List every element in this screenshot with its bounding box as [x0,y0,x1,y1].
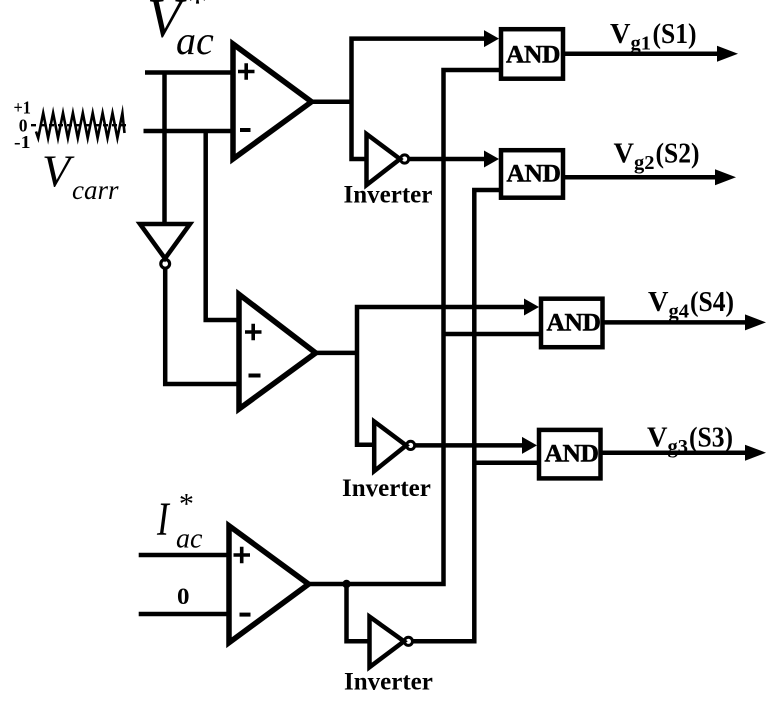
svg-text:V: V [614,137,635,169]
svg-text:AND: AND [507,159,561,188]
comparator U2 minus sign [249,374,261,378]
comparator U3 minus sign [240,613,251,617]
junction dot comparator U3 output [342,580,350,588]
carrier waveform axis labels +1 0 -1 [14,98,31,153]
label Vg1 (S1) [610,18,697,55]
wire comparator U3 output right then up vertical bus 1 to AND1 lower input [306,70,499,584]
comparator U1 minus sign [240,128,251,132]
svg-text:(S1): (S1) [653,18,697,50]
arrowhead into AND1 [484,30,499,47]
wire comparator U2 output up to AND3 and down to inverter U6 [357,307,529,445]
AND gate AND1 [501,29,563,78]
wire zero reference to comparator U3 minus [139,612,229,617]
inverter U5 [367,134,401,185]
svg-text:g4: g4 [669,301,690,323]
comparator U2 plus sign [245,324,262,341]
node Iac* reference current label [156,488,203,555]
svg-text:ac: ac [176,524,203,555]
node Vcarr carrier label [42,146,119,206]
wire inverter U4 output to comparator U2 minus input [165,269,239,384]
AND gate AND3 [541,299,603,348]
svg-text:g1: g1 [631,33,652,55]
wire Vac* to comparator U1 plus input [145,70,233,75]
comparator U1 plus sign [238,63,255,80]
svg-text:*: * [178,488,193,521]
inverter U4 bubble [161,259,170,268]
wire carrier to comparator U1 minus input [144,129,234,134]
wire inverter U5 output to AND2 [409,157,489,162]
svg-text:(S2): (S2) [656,137,700,169]
wire bus 2 tee to AND4 lower input [474,460,537,465]
svg-text:(S3): (S3) [689,421,733,453]
svg-text:V: V [647,421,668,453]
svg-text:*: * [185,0,206,26]
svg-text:0: 0 [177,584,190,610]
comparator U3 plus sign [234,547,251,564]
wire AND3 output arrow Vg4 [605,320,746,325]
svg-text:+1: +1 [14,98,31,118]
wire comparator U1 output up to AND1 and down to inverter U5 [352,39,490,159]
svg-text:carr: carr [72,175,119,205]
AND gate AND2 [501,150,563,198]
wire inverter U7 output up vertical bus 2 to AND2 lower input [413,190,500,641]
svg-text:AND: AND [506,40,560,69]
inverter U6 bubble [407,441,415,449]
svg-text:Inverter: Inverter [344,182,433,209]
inverter U7 bubble [404,637,412,645]
wire AND1 output arrow Vg1 [565,52,717,57]
node Vac* reference input label [147,0,214,63]
svg-text:g3: g3 [668,436,689,458]
svg-text:-1: -1 [14,132,31,152]
wire Vac* branch down to inverter U4 [162,73,167,225]
svg-text:V: V [648,286,669,318]
wire comparator U1 output stub [309,100,352,105]
svg-text:Inverter: Inverter [342,475,431,502]
svg-text:V: V [42,146,75,197]
wire comparator U2 output stub [313,351,357,356]
carrier waveform zigzag [36,113,125,138]
label Vg3 (S3) [647,421,733,458]
arrowhead into AND3 [524,299,539,316]
arrowhead into AND4 [522,437,537,454]
comparator U3 [229,526,309,643]
inverter U6 [374,422,406,472]
label Vg2 (S2) [614,137,700,174]
label Vg4 (S4) [648,286,734,323]
wire AND2 output arrow Vg2 [565,175,715,180]
wire inverter U6 output to AND4 [415,443,527,448]
svg-text:Inverter: Inverter [344,669,433,696]
arrowhead into AND2 [484,151,499,168]
svg-text:I: I [156,493,170,546]
comparator U2 [239,294,316,409]
inverter U4 (down-pointing) [140,224,190,259]
inverter U5 bubble [401,155,409,163]
svg-text:g2: g2 [634,152,655,174]
wire carrier branch down and into comparator U2 plus input [206,131,239,320]
wire AND4 output arrow Vg3 [603,450,746,455]
wire junction down to inverter U7 input [347,584,370,641]
carrier waveform zero dashed line [31,124,128,126]
svg-text:AND: AND [545,439,599,468]
comparator U1 [233,44,312,159]
svg-text:V: V [610,18,631,50]
inverter U7 [370,617,405,668]
svg-text:AND: AND [547,308,601,337]
svg-text:(S4): (S4) [690,286,734,318]
wire bus 1 tee to AND3 lower input [444,332,540,337]
AND gate AND4 [539,430,601,479]
node Iac* input wire to comparator U3 plus [139,553,229,558]
